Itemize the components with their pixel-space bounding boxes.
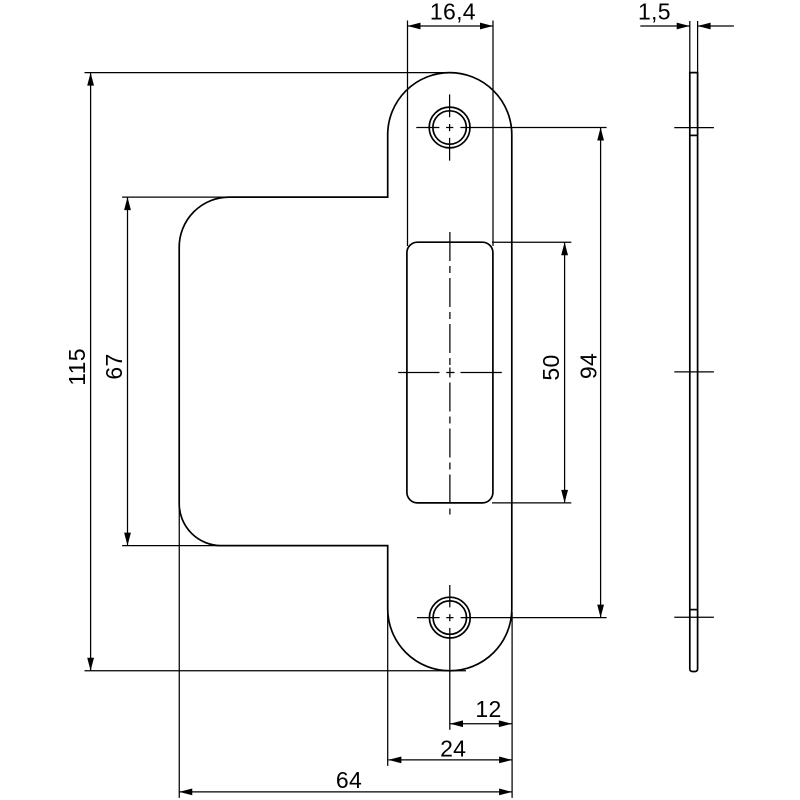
side view centerline tick top hole (674, 127, 714, 129)
screw hole bottom outer (429, 597, 470, 638)
dimension 12 arrow left (450, 720, 463, 727)
screw hole top outer (429, 107, 470, 148)
dimension 16,4 arrow right (480, 23, 493, 30)
dimension 1,5 tail left (640, 25, 689, 27)
dimension 64 line (179, 791, 512, 793)
centerline slot horizontal (398, 372, 502, 374)
dimension 50 extension top (492, 241, 571, 243)
screw hole bottom inner (433, 601, 466, 634)
dimension 115 extension bottom (85, 670, 467, 672)
svg-text:64: 64 (336, 767, 362, 793)
screw hole top inner (433, 111, 466, 144)
dimension 115 arrow top (87, 73, 94, 86)
plate outline front view (179, 73, 512, 671)
dimension 1,5 extension left (689, 21, 691, 73)
dimension 67 arrow bottom (124, 533, 131, 546)
svg-text:16,4: 16,4 (430, 0, 476, 25)
dimension 115 line (90, 73, 92, 671)
dimension 1,5 arrow left (677, 23, 690, 30)
dimension 16,4 line (408, 25, 494, 27)
side view centerline tick bottom hole (674, 616, 714, 618)
dimension 12 arrow right (499, 720, 512, 727)
latch slot (407, 242, 493, 503)
dimension 67 extension top (122, 196, 230, 198)
dimension 94 line (600, 128, 602, 618)
centerline top hole horizontal (extends to 94 dim) (416, 127, 606, 129)
dimension 50 arrow bottom (561, 490, 568, 503)
dimension 16,4 arrow left (408, 23, 421, 30)
dimension 12 extension right shared with 24 64 (511, 612, 513, 798)
side view tangent mark bottom (690, 609, 698, 611)
dimension 115 arrow bottom (87, 658, 94, 671)
dimension 67 arrow top (124, 197, 131, 210)
dimension 24 line (388, 759, 512, 761)
dimension 24 extension left (387, 612, 389, 766)
dimension 1,5 extension right (697, 21, 699, 73)
svg-text:24: 24 (440, 736, 466, 762)
centerline top hole vertical (449, 94, 451, 160)
dimension 1,5 tail right (698, 25, 734, 27)
svg-text:115: 115 (64, 348, 90, 386)
centerline bottom hole horizontal (extends to 94 dim) (417, 617, 607, 619)
svg-text:12: 12 (475, 696, 501, 722)
dimension 50 line (564, 242, 566, 503)
svg-text:50: 50 (538, 354, 564, 380)
dimension 1,5 arrow right (698, 23, 711, 30)
dimension 64 arrow left (179, 789, 192, 796)
dimension 64 extension left (178, 505, 180, 798)
dimension 16,4 extension left (407, 21, 409, 247)
dimension 67 line (127, 197, 129, 545)
dimension 115 extension top (85, 72, 457, 74)
side view tangent mark top (690, 134, 698, 136)
svg-text:1,5: 1,5 (638, 0, 671, 25)
side view profile (690, 73, 698, 672)
svg-text:67: 67 (101, 353, 127, 379)
svg-text:94: 94 (575, 353, 601, 379)
dimension 50 arrow top (561, 242, 568, 255)
dimension 24 arrow right (499, 757, 512, 764)
centerline bottom hole vertical (extends to 12 dim) (449, 585, 451, 730)
dimension 67 extension bottom (122, 545, 222, 547)
side view centerline tick slot (674, 371, 714, 373)
centerline slot vertical dash-dot (449, 232, 451, 515)
dimension 50 extension bottom (492, 502, 571, 504)
dimension 24 arrow left (388, 757, 401, 764)
dimension 94 arrow bottom (597, 605, 604, 618)
dimension 94 arrow top (597, 128, 604, 141)
dimension 12 line (450, 723, 512, 725)
dimension 64 arrow right (499, 789, 512, 796)
dimension 16,4 extension right (492, 21, 494, 247)
